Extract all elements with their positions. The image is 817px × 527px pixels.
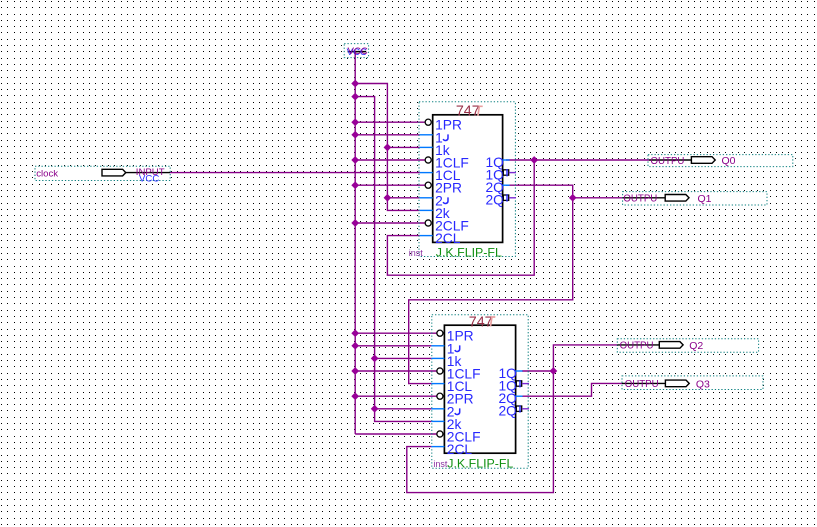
- U2 pin 2CLK: [431, 442, 472, 457]
- U2 pin 2Qb: [498, 404, 529, 419]
- wire: U1 1Q down to U1 2CLK (ripple feed): [387, 160, 534, 275]
- svg-text:OUTPU: OUTPU: [623, 194, 657, 205]
- wire: clock input net to U1 pin 1CLK: [170, 172, 420, 174]
- junction: bus B2 at U2 1K: [371, 355, 378, 362]
- U1 pin 2J: [420, 193, 448, 208]
- wire: branch to bus B2 (second elbow): [355, 97, 374, 359]
- junction: bus B1 at U1 2J: [384, 194, 391, 201]
- U2 pin 2CLR: [437, 430, 481, 445]
- U2 body: [444, 325, 515, 453]
- U2 pin 2K: [431, 417, 461, 432]
- U1 pin 1Qb: [485, 167, 516, 182]
- junction: Q0 net at U1 1Q: [531, 157, 538, 164]
- U2 pin 1J: [431, 341, 459, 356]
- output port Q1 (OUTPUT): [623, 192, 767, 205]
- wire: U1 2Q to OUTPUT Q1: [506, 185, 623, 198]
- U2 pin 1CLR: [437, 367, 481, 382]
- U2 pin 1K: [431, 354, 461, 369]
- svg-text:VCC: VCC: [348, 46, 368, 57]
- wire: VCC tap to U1 pin 2PR: [355, 184, 425, 186]
- svg-text:Q3: Q3: [696, 378, 710, 390]
- U2 pin 2PR: [437, 392, 474, 407]
- wire: VCC tap to U2 pin 2PR: [355, 395, 437, 397]
- junction: bus B2 at U2 2J: [371, 405, 378, 412]
- U1 body: [433, 115, 503, 243]
- wire: VCC tap to U2 pin 1CLR: [355, 370, 437, 372]
- wire: VCC tap to U1 pin 1PR: [355, 121, 425, 123]
- junction: VCC bus to B1: [352, 80, 359, 87]
- svg-text:Q1: Q1: [698, 193, 712, 205]
- svg-text:2Q: 2Q: [498, 404, 517, 419]
- wire: VCC tap to U1 pin 1CLR: [355, 159, 425, 161]
- wire: VCC bus bottom elbow to U2 pin 2CLR: [355, 433, 437, 435]
- svg-text:J.K.FLIP-FL: J.K.FLIP-FL: [447, 456, 513, 470]
- wire: VCC tap to U1 pin 1K: [387, 146, 419, 148]
- svg-text:OUTPU: OUTPU: [651, 156, 685, 167]
- svg-text:Q2: Q2: [689, 340, 703, 352]
- wire: U1 2Q down to U2 pin 1CLK (ripple feed): [409, 198, 573, 384]
- U1 pin 1J: [420, 130, 448, 145]
- wire: branch to bus B1 (top elbow): [355, 84, 387, 148]
- wire: VCC tap to U1 pin 1J: [355, 134, 420, 136]
- U2 pin 2J: [431, 404, 459, 419]
- junction: VCC bus at U2 1CLR: [352, 368, 359, 375]
- U1 pin 1K: [420, 143, 450, 158]
- U1 pin 2CLR: [425, 219, 469, 234]
- wire: U2 2Q to OUTPUT Q3: [522, 383, 622, 396]
- svg-text:2CL: 2CL: [447, 442, 473, 457]
- wire: VCC tap to U2 pin 1PR: [355, 332, 437, 334]
- U2 pin 1Qb: [498, 378, 529, 393]
- wire: VCC tap to U2 pin 1J: [355, 345, 431, 347]
- J-K flip-flop U1 (7476) selection box: [419, 102, 515, 257]
- U2 pin 2Q: [498, 391, 522, 406]
- junction: VCC bus to B2: [352, 93, 359, 100]
- svg-text:OUTPU: OUTPU: [620, 341, 654, 352]
- output port Q2 (OUTPUT): [617, 339, 758, 352]
- svg-text:clock: clock: [36, 169, 58, 180]
- U2 pin 1PR: [437, 329, 474, 344]
- U1 pin 1PR: [425, 118, 462, 133]
- svg-text:2CL: 2CL: [435, 231, 461, 246]
- junction: VCC bus at U2 1J: [352, 342, 359, 349]
- junction: VCC bus at U1 1J: [352, 131, 359, 138]
- selection highlight white backdrops: [344, 44, 368, 58]
- U1 pin 2Qb: [485, 193, 516, 208]
- U2 pin 1Q: [498, 366, 522, 381]
- power symbol VCC (net VCC): [344, 44, 368, 59]
- output port Q3 (OUTPUT): [622, 376, 763, 391]
- junction: VCC bus at U1 1PR: [352, 119, 359, 126]
- wire: VCC tap to U1 pin 2CLR: [355, 222, 425, 224]
- U1 pin 1Q: [485, 155, 509, 170]
- U1 pin 2PR: [425, 181, 462, 196]
- svg-text:2Q: 2Q: [485, 193, 504, 208]
- junction: VCC bus at U1 2CLR: [352, 220, 359, 227]
- U1 pin 2K: [420, 206, 450, 221]
- U1 pin 2CLK: [420, 231, 461, 246]
- junction: Q1 net branch: [569, 194, 576, 201]
- junction: bus B1 at U1 1K: [384, 144, 391, 151]
- U1 pin 2Q: [485, 180, 509, 195]
- svg-text:J.K.FLIP-FL: J.K.FLIP-FL: [436, 246, 502, 260]
- junction: VCC bus at U2 2PR: [352, 393, 359, 400]
- wire: U2 1Q to OUTPUT Q2: [522, 345, 617, 371]
- svg-text:inst: inst: [433, 459, 448, 469]
- svg-text:OUTPU: OUTPU: [625, 379, 659, 390]
- J-K flip-flop U2 (7476) selection box: [432, 315, 528, 469]
- U1 pin 1CLK: [420, 168, 461, 183]
- wire: VCC main vertical bus: [354, 52, 356, 434]
- input port clock (INPUT): [35, 166, 170, 184]
- svg-text:Q0: Q0: [722, 155, 736, 167]
- wire: VCC tap to U1 pin 2J: [387, 197, 419, 199]
- wire: VCC tap to U2 pin 2J: [375, 408, 432, 410]
- U1 pin 1CLR: [425, 156, 469, 171]
- wire: U2 1Q down to U2 pin 2CLK (ripple feed): [407, 371, 554, 493]
- wire: VCC tap to U2 pin 1K: [375, 357, 432, 359]
- wire: bus B1 continues to 2J/2K of U1: [387, 147, 419, 210]
- U2 pin 1CLK: [431, 379, 472, 394]
- junction: VCC bus at U1 2PR: [352, 182, 359, 189]
- wire: U1 1Q to OUTPUT Q0: [506, 159, 649, 161]
- wire: bus B2 continues to 2J/2K of U2: [375, 358, 432, 421]
- output port Q0 (OUTPUT): [648, 155, 793, 168]
- junction: VCC bus at U1 1CLR: [352, 157, 359, 164]
- junction: Q2 net at U2 1Q: [550, 368, 557, 375]
- svg-text:inst: inst: [409, 248, 424, 258]
- junction: VCC bus at U2 1PR: [352, 330, 359, 337]
- svg-text:VCC: VCC: [139, 174, 159, 185]
